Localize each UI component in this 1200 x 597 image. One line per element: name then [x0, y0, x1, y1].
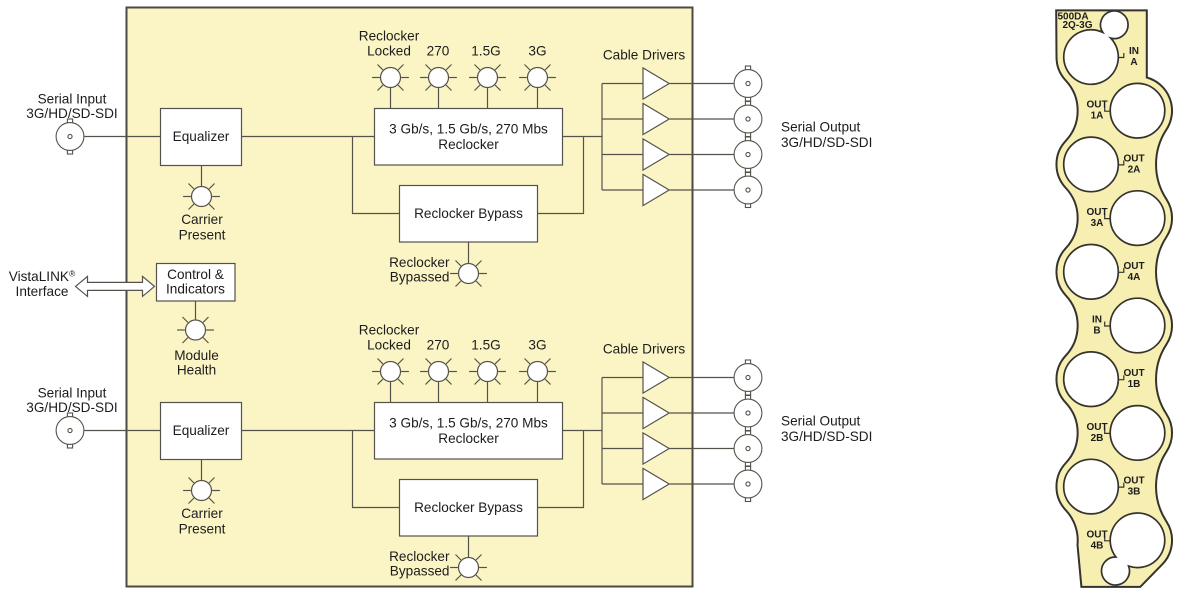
- label OUT 4B: [1086, 529, 1107, 551]
- hole OUT 4A: [1064, 244, 1119, 299]
- svg-text:Cable Drivers: Cable Drivers: [603, 48, 686, 63]
- label OUT 2B: [1086, 422, 1107, 444]
- label IN A: [1129, 46, 1139, 68]
- wire LED 3 stem A: [487, 88, 489, 110]
- wire driver 2 out A: [670, 118, 735, 120]
- label OUT 1A: [1086, 100, 1107, 122]
- wire driver 3 out B: [670, 448, 735, 450]
- svg-text:OUT: OUT: [1086, 207, 1107, 218]
- tick OUT 1A: [1105, 107, 1111, 112]
- LED module health: [177, 317, 214, 343]
- BNC output 2 B: [734, 396, 762, 431]
- svg-text:Present: Present: [179, 228, 226, 243]
- svg-text:OUT: OUT: [1123, 153, 1144, 164]
- svg-text:4A: 4A: [1128, 272, 1141, 283]
- label vistalink interface: [9, 269, 76, 300]
- wire LED 3 stem B: [487, 382, 489, 404]
- wire LED 4 stem B: [537, 382, 539, 404]
- svg-text:Serial Output: Serial Output: [781, 413, 861, 428]
- svg-text:3A: 3A: [1091, 218, 1104, 229]
- reclocker bypass box B: [400, 480, 538, 537]
- svg-text:3 Gb/s, 1.5 Gb/s, 270 Mbs: 3 Gb/s, 1.5 Gb/s, 270 Mbs: [389, 122, 548, 137]
- svg-text:OUT: OUT: [1086, 422, 1107, 433]
- svg-text:Reclocker Bypass: Reclocker Bypass: [414, 500, 523, 515]
- label carrier present A: [179, 212, 226, 243]
- wire equalizer to reclocker A: [242, 136, 375, 138]
- svg-text:3G: 3G: [528, 338, 546, 353]
- wire to bypass input B: [353, 431, 400, 508]
- svg-text:Reclocker: Reclocker: [438, 431, 499, 446]
- wire driver 2 out B: [670, 412, 735, 414]
- svg-text:1B: 1B: [1128, 379, 1141, 390]
- hole IN B: [1110, 298, 1165, 353]
- amp driver 4 B: [643, 468, 669, 499]
- LED reclocker 1 A: [372, 64, 409, 90]
- svg-text:2B: 2B: [1091, 433, 1104, 444]
- wire reclocker output A: [563, 136, 603, 138]
- svg-text:270: 270: [427, 44, 450, 59]
- tick OUT 3B: [1118, 483, 1124, 488]
- svg-text:3G/HD/SD-SDI: 3G/HD/SD-SDI: [781, 429, 872, 444]
- svg-text:OUT: OUT: [1086, 100, 1107, 111]
- wire input B: [84, 430, 160, 432]
- wire LED 4 stem A: [537, 88, 539, 110]
- wire control to module LED: [195, 302, 197, 321]
- svg-text:OUT: OUT: [1086, 529, 1107, 540]
- svg-text:3B: 3B: [1128, 487, 1141, 498]
- svg-text:Interface: Interface: [16, 284, 69, 299]
- svg-text:4B: 4B: [1091, 540, 1104, 551]
- BNC output 1 A: [734, 66, 762, 101]
- LED reclocker bypassed A: [450, 260, 487, 286]
- wire bypass to LED A: [468, 242, 470, 264]
- svg-text:Equalizer: Equalizer: [173, 129, 230, 144]
- amp driver 1 B: [643, 362, 669, 393]
- svg-text:IN: IN: [1092, 315, 1102, 326]
- svg-text:OUT: OUT: [1123, 476, 1144, 487]
- LED reclocker 2 A: [420, 64, 457, 90]
- svg-text:Module: Module: [174, 348, 219, 363]
- bus cable drivers B: [602, 378, 643, 485]
- hole OUT 2B: [1110, 406, 1165, 461]
- equalizer box A: [161, 109, 242, 166]
- tick IN B: [1105, 322, 1111, 327]
- tick OUT 4A: [1118, 268, 1124, 273]
- svg-text:B: B: [1093, 326, 1100, 337]
- svg-text:Reclocker: Reclocker: [359, 29, 420, 44]
- LED reclocker bypassed B: [450, 554, 487, 580]
- reclocker bypass box A: [400, 186, 538, 243]
- rear panel plate: [1056, 10, 1172, 587]
- wire driver 4 out B: [670, 483, 735, 485]
- control and indicators box: [157, 264, 236, 302]
- svg-text:Reclocker: Reclocker: [359, 323, 420, 338]
- BNC input A: [56, 119, 84, 154]
- wire to bypass input A: [353, 137, 400, 214]
- wire driver 4 out A: [670, 189, 735, 191]
- label OUT 4A: [1123, 261, 1144, 283]
- label OUT 3A: [1086, 207, 1107, 229]
- wire LED 2 stem B: [438, 382, 440, 404]
- label OUT 3B: [1123, 476, 1144, 498]
- wire LED 1 stem B: [390, 382, 392, 404]
- wire reclocker output B: [563, 430, 603, 432]
- svg-text:Serial Output: Serial Output: [781, 119, 861, 134]
- reclocker box B: [375, 403, 563, 460]
- hole OUT 3B: [1064, 459, 1119, 514]
- svg-text:VistaLINK®: VistaLINK®: [9, 269, 76, 285]
- BNC output 1 B: [734, 360, 762, 395]
- LED reclocker 1 B: [372, 358, 409, 384]
- amp driver 3 A: [643, 139, 669, 170]
- svg-text:Reclocker: Reclocker: [389, 549, 450, 564]
- reclocker box A: [375, 109, 563, 166]
- wire driver 1 out A: [670, 83, 735, 85]
- hole OUT 3A: [1110, 191, 1165, 246]
- label reclocker bypassed A: [389, 255, 450, 285]
- svg-text:Reclocker: Reclocker: [438, 137, 499, 152]
- amp driver 2 B: [643, 397, 669, 428]
- wire input A: [84, 136, 160, 138]
- svg-text:IN: IN: [1129, 46, 1139, 57]
- main module block: [127, 8, 693, 587]
- svg-text:Control &: Control &: [167, 267, 224, 282]
- svg-text:Locked: Locked: [367, 338, 411, 353]
- svg-text:3G/HD/SD-SDI: 3G/HD/SD-SDI: [781, 135, 872, 150]
- LED reclocker 4 B: [519, 358, 556, 384]
- svg-text:Serial Input: Serial Input: [38, 92, 107, 107]
- LED reclocker 4 A: [519, 64, 556, 90]
- svg-text:Bypassed: Bypassed: [390, 564, 450, 579]
- amp driver 2 A: [643, 103, 669, 134]
- tick OUT 1B: [1118, 375, 1124, 380]
- BNC output 4 B: [734, 467, 762, 502]
- tick OUT 4B: [1105, 536, 1111, 541]
- tick OUT 3A: [1105, 214, 1111, 219]
- svg-text:270: 270: [427, 338, 450, 353]
- hole IN A with mounting hole: [1064, 11, 1128, 84]
- wire driver 1 out B: [670, 377, 735, 379]
- svg-text:3G: 3G: [528, 44, 546, 59]
- label serial input A: [26, 92, 117, 121]
- label OUT 1B: [1123, 368, 1144, 390]
- label carrier present B: [179, 506, 226, 537]
- BNC output 2 A: [734, 102, 762, 137]
- svg-text:Reclocker: Reclocker: [389, 255, 450, 270]
- equalizer box B: [161, 403, 242, 460]
- hole OUT 1B: [1064, 352, 1119, 407]
- svg-text:Equalizer: Equalizer: [173, 423, 230, 438]
- svg-text:Serial Input: Serial Input: [38, 386, 107, 401]
- wire equalizer to reclocker B: [242, 430, 375, 432]
- arrow vistalink: [76, 276, 155, 296]
- label serial input B: [26, 386, 117, 415]
- svg-text:1.5G: 1.5G: [471, 44, 500, 59]
- wire equalizer to carrier LED B: [201, 460, 203, 482]
- LED reclocker 3 B: [469, 358, 506, 384]
- label reclocker locked B: [359, 323, 420, 353]
- svg-text:1A: 1A: [1091, 111, 1104, 122]
- label serial output A: [781, 119, 872, 150]
- svg-text:Bypassed: Bypassed: [390, 270, 450, 285]
- LED reclocker 2 B: [420, 358, 457, 384]
- hole OUT 4B with mounting hole: [1102, 513, 1165, 585]
- BNC output 3 B: [734, 431, 762, 466]
- wire driver 3 out A: [670, 154, 735, 156]
- label serial output B: [781, 413, 872, 444]
- BNC output 3 A: [734, 137, 762, 172]
- BNC output 4 A: [734, 173, 762, 208]
- svg-text:Present: Present: [179, 522, 226, 537]
- label IN B: [1092, 315, 1102, 337]
- wire bypass output B: [538, 431, 584, 508]
- svg-text:Locked: Locked: [367, 44, 411, 59]
- tick IN A: [1118, 53, 1124, 58]
- label reclocker bypassed B: [389, 549, 450, 579]
- svg-text:Health: Health: [177, 363, 216, 378]
- wire bypass output A: [538, 137, 584, 214]
- label OUT 2A: [1123, 153, 1144, 175]
- svg-text:A: A: [1130, 57, 1137, 68]
- svg-text:OUT: OUT: [1123, 368, 1144, 379]
- LED reclocker 3 A: [469, 64, 506, 90]
- svg-text:Cable Drivers: Cable Drivers: [603, 342, 686, 357]
- amp driver 1 A: [643, 68, 669, 99]
- tick OUT 2B: [1105, 429, 1111, 434]
- bus cable drivers A: [602, 84, 643, 191]
- svg-text:Reclocker Bypass: Reclocker Bypass: [414, 206, 523, 221]
- svg-text:Indicators: Indicators: [166, 281, 225, 296]
- hole OUT 2A: [1064, 137, 1119, 192]
- wire LED 2 stem A: [438, 88, 440, 110]
- svg-text:Carrier: Carrier: [181, 506, 223, 521]
- rear panel title: [1058, 11, 1093, 31]
- amp driver 3 B: [643, 433, 669, 464]
- svg-text:2A: 2A: [1128, 164, 1141, 175]
- LED carrier present B: [183, 477, 220, 503]
- wire equalizer to carrier LED A: [201, 166, 203, 188]
- svg-text:Carrier: Carrier: [181, 212, 223, 227]
- LED carrier present A: [183, 183, 220, 209]
- label reclocker locked A: [359, 29, 420, 59]
- wire bypass to LED B: [468, 536, 470, 558]
- hole OUT 1A: [1110, 83, 1165, 138]
- svg-text:1.5G: 1.5G: [471, 338, 500, 353]
- tick OUT 2A: [1118, 160, 1124, 165]
- amp driver 4 A: [643, 174, 669, 205]
- BNC input B: [56, 413, 84, 448]
- svg-text:3 Gb/s, 1.5 Gb/s, 270 Mbs: 3 Gb/s, 1.5 Gb/s, 270 Mbs: [389, 416, 548, 431]
- wire LED 1 stem A: [390, 88, 392, 110]
- svg-text:OUT: OUT: [1123, 261, 1144, 272]
- label module health: [174, 348, 219, 378]
